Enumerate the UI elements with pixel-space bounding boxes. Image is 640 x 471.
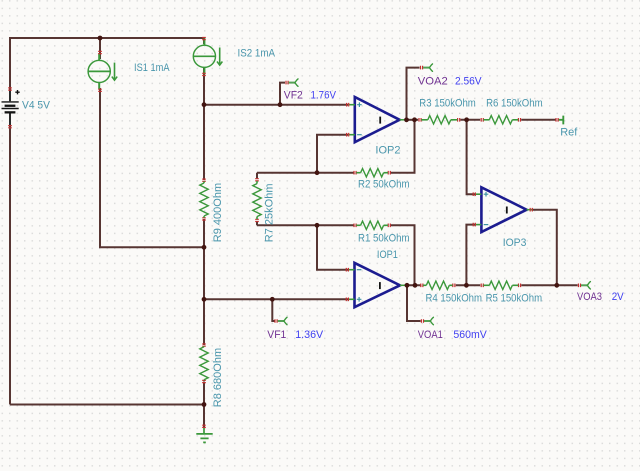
svg-text:IOP1: IOP1 [377,249,398,261]
svg-text:R1 50kOhm: R1 50kOhm [358,233,410,245]
svg-text:Ref: Ref [560,127,578,139]
svg-text:R7 25kOhm: R7 25kOhm [264,183,276,242]
svg-text:R3 150kOhm: R3 150kOhm [419,98,476,110]
svg-text:R4 150kOhm: R4 150kOhm [426,293,483,305]
svg-text:IS1 1mA: IS1 1mA [134,62,170,74]
svg-text:V4 5V: V4 5V [22,100,51,112]
svg-text:VOA3: VOA3 [577,291,602,303]
svg-text:IOP3: IOP3 [503,237,527,249]
svg-text:IOP2: IOP2 [375,145,400,157]
svg-text:VF2: VF2 [284,90,303,102]
svg-text:R8 680Ohm: R8 680Ohm [212,348,224,407]
svg-text:VOA1: VOA1 [418,329,443,341]
svg-text:2V: 2V [612,291,625,303]
svg-text:R2 50kOhm: R2 50kOhm [358,179,410,191]
svg-text:VOA2: VOA2 [418,75,448,87]
svg-text:VF1: VF1 [267,329,286,341]
svg-text:1.76V: 1.76V [311,90,337,102]
svg-text:2.56V: 2.56V [455,75,482,87]
svg-text:R9 400Ohm: R9 400Ohm [212,183,224,242]
svg-text:1.36V: 1.36V [295,329,324,341]
svg-text:R6 150kOhm: R6 150kOhm [486,98,542,110]
svg-text:560mV: 560mV [453,329,487,341]
svg-text:IS2 1mA: IS2 1mA [238,47,276,59]
svg-text:R5 150kOhm: R5 150kOhm [486,293,542,305]
